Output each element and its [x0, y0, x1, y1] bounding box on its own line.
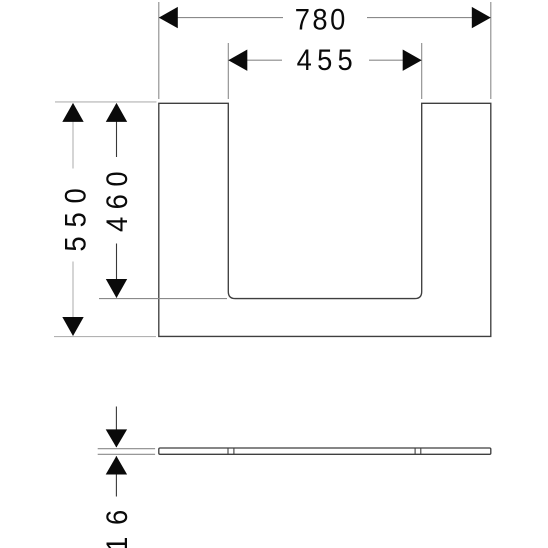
- label 455: [297, 44, 358, 77]
- extension line side view bottom: [98, 453, 155, 455]
- svg-text:455: 455: [297, 44, 358, 77]
- dimension line 460 lower segment: [116, 244, 118, 298]
- dimension line 460 upper segment: [116, 104, 118, 157]
- arrowhead 780 right: [472, 7, 491, 28]
- arrowhead 550 top: [62, 103, 83, 122]
- dimension line 780 right segment: [367, 17, 491, 19]
- svg-text:16: 16: [101, 498, 134, 548]
- svg-text:460: 460: [101, 164, 134, 232]
- extension line bottom left horizontal: [54, 336, 156, 338]
- dimension line 550 upper segment: [72, 104, 74, 169]
- extension line 455 left: [227, 43, 229, 99]
- dimension line 16 lower: [115, 456, 117, 496]
- arrowhead 550 bottom: [62, 317, 83, 336]
- dimension line 780 left segment: [159, 17, 283, 19]
- extension line 780 left: [158, 2, 160, 99]
- dimension line 455 left segment: [228, 59, 282, 61]
- arrowhead 460 bottom: [106, 279, 127, 298]
- extension line 455 right: [421, 43, 423, 99]
- extension line side view top: [98, 448, 155, 450]
- side view divider right pair: [414, 448, 416, 454]
- side view divider left pair: [227, 448, 229, 454]
- arrowhead 455 left: [228, 50, 247, 71]
- arrowhead 460 top: [106, 103, 127, 122]
- svg-text:550: 550: [60, 179, 93, 251]
- arrowhead 780 left: [159, 7, 178, 28]
- label 780: [295, 4, 348, 37]
- dimension line 16 upper: [115, 407, 117, 448]
- extension line 780 right: [490, 2, 492, 99]
- arrowhead 16 top: [106, 429, 127, 447]
- dimension line 455 right segment: [369, 59, 422, 61]
- extension line cutout bottom: [99, 298, 227, 300]
- top view plate outline with U cutout: [159, 103, 491, 336]
- arrowhead 455 right: [403, 50, 422, 71]
- extension line top left horizontal: [55, 101, 157, 103]
- arrowhead 16 bottom: [106, 456, 127, 475]
- side view bar outline: [159, 448, 491, 454]
- svg-text:780: 780: [295, 4, 348, 37]
- dimension line 550 lower segment: [72, 262, 74, 336]
